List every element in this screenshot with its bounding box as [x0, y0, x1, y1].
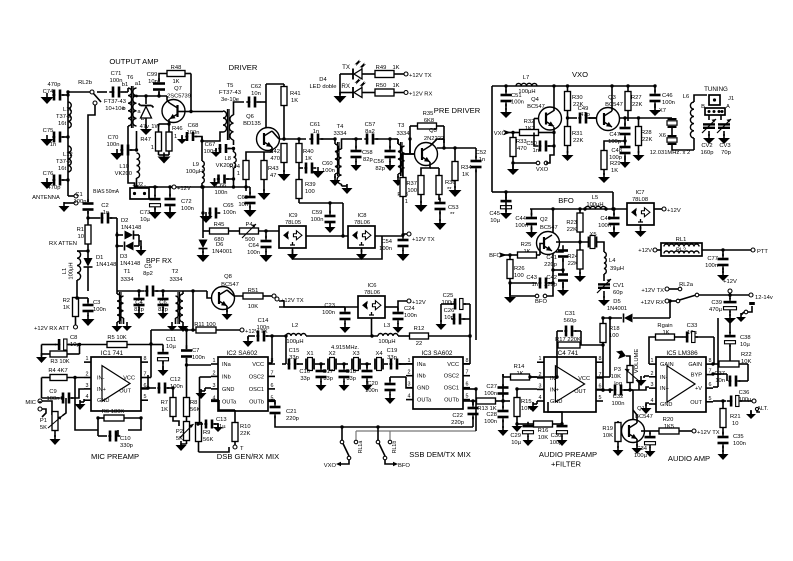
svg-text:MIC PREAMP: MIC PREAMP: [91, 452, 139, 461]
diode D2 label: [121, 218, 141, 231]
svg-text:C45: C45: [489, 211, 500, 217]
variable capacitor CV1 label: [613, 283, 624, 296]
capacitor C38 label: [740, 335, 751, 348]
wire T6 a tap to L10: [135, 131, 138, 152]
wire Q4 base: [534, 119, 539, 133]
ANTENNA label: [32, 195, 60, 201]
resistor R40: [296, 137, 302, 168]
svg-text:RL1b: RL1b: [392, 441, 398, 454]
wire IC1 pin7 rail: [148, 328, 195, 377]
svg-text:C25: C25: [443, 293, 454, 299]
connector J1 pins: [705, 108, 725, 115]
relay contact RL1a bottom: [340, 456, 351, 464]
svg-text:100n: 100n: [247, 250, 260, 256]
crystal X5: [556, 236, 597, 249]
transformer T5 label: [219, 83, 241, 103]
svg-text:-: -: [144, 183, 146, 189]
capacitor C45 label: [489, 211, 500, 224]
svg-text:5K: 5K: [40, 425, 47, 431]
capacitor C58: [351, 137, 362, 171]
wire IC4 out node: [596, 388, 612, 391]
power plug symbol: [736, 302, 755, 322]
capacitor C12 label: [170, 377, 183, 390]
svg-text:C75: C75: [43, 128, 54, 134]
resistor R15 label: [521, 399, 532, 412]
ground for IC8: [356, 248, 367, 260]
label BFO bottom: [535, 299, 547, 305]
wire IC1 out to C12: [141, 386, 150, 389]
regulator IC6 78L06: [358, 296, 385, 318]
relay contact RL2b label: [78, 80, 92, 86]
crystal X3 label: [352, 351, 359, 357]
resistor R38 label: [397, 192, 408, 205]
crystal X7: [667, 119, 677, 127]
svg-text:IC2 SA602: IC2 SA602: [227, 350, 258, 357]
capacitor C74 label: [43, 82, 61, 95]
potentiometer P4: [240, 224, 280, 238]
svg-text:+12V: +12V: [723, 279, 737, 285]
label BPF RX: [146, 256, 172, 265]
svg-text:C43: C43: [526, 275, 537, 281]
svg-text:OUTb: OUTb: [249, 399, 264, 405]
svg-text:2: 2: [651, 371, 654, 377]
resistor R1: [85, 225, 91, 258]
capacitor C64 label: [247, 243, 260, 256]
wire IC9 in from P4: [278, 230, 280, 232]
svg-text:GND: GND: [417, 386, 429, 392]
svg-text:PTT: PTT: [757, 249, 768, 255]
crystal X7 label: [659, 108, 666, 114]
svg-text:C62: C62: [251, 84, 262, 90]
label +12V TX switch: [641, 288, 664, 294]
svg-text:R46: R46: [172, 126, 183, 132]
svg-text:GND: GND: [550, 399, 562, 405]
svg-text:+12V RX: +12V RX: [641, 300, 664, 306]
resistor R49: [362, 71, 404, 78]
svg-text:VCC: VCC: [123, 376, 135, 382]
wire Q5 emitter to R37: [421, 162, 430, 176]
svg-text:8: 8: [709, 358, 712, 364]
svg-text:100: 100: [305, 189, 315, 195]
svg-text:1K: 1K: [161, 407, 168, 413]
svg-text:82p: 82p: [363, 157, 373, 163]
wire IC1 pin7 up: [147, 375, 149, 388]
resistor R21: [720, 401, 726, 434]
wire R6 feedback: [75, 378, 143, 431]
wire IC3 OUTb to R13: [463, 399, 477, 402]
wire L1 to R2: [76, 280, 78, 298]
inductor L12 label: [56, 152, 73, 172]
connector J2 BIAS label: [93, 189, 120, 195]
capacitor C63 label: [237, 195, 248, 208]
svg-text:C13: C13: [216, 417, 227, 423]
svg-text:BFO: BFO: [535, 299, 547, 305]
transformer T3: [398, 139, 405, 176]
resistor R43 label: [268, 166, 279, 179]
svg-text:A: A: [726, 104, 730, 110]
svg-text:T: T: [240, 446, 244, 452]
svg-text:100n: 100n: [662, 100, 675, 106]
terminal +12V RX led: [404, 91, 432, 98]
svg-text:R28: R28: [641, 130, 652, 136]
terminal PTT: [751, 248, 768, 255]
svg-text:BFO: BFO: [489, 253, 501, 259]
wire BFO contact right: [547, 290, 553, 296]
resistor Rgain label: [657, 323, 672, 336]
capacitor C57: [352, 134, 394, 145]
diode D6: [199, 231, 208, 253]
label BFO left: [489, 253, 501, 259]
variable capacitor CV2 label: [701, 143, 714, 156]
relay RL1 RL2 box: [661, 243, 702, 256]
terminal +12V TX led: [404, 72, 432, 79]
svg-text:C71: C71: [111, 71, 122, 77]
capacitor C73: [149, 185, 162, 219]
svg-text:100n: 100n: [484, 391, 497, 397]
svg-text:C9: C9: [49, 389, 56, 395]
transistor Q8 label: [221, 274, 239, 288]
regulator IC9 78L05 label: [285, 213, 301, 226]
svg-text:70p: 70p: [721, 150, 731, 156]
svg-text:C77: C77: [707, 256, 718, 262]
wire T3 top to C57: [394, 137, 412, 154]
resistor R42: [281, 144, 287, 173]
capacitor C46 label: [662, 93, 675, 106]
svg-text:100n: 100n: [107, 142, 120, 148]
capacitor C15: [282, 334, 303, 369]
svg-text:10K: 10K: [611, 374, 621, 380]
terminal +12V relay: [638, 248, 661, 254]
capacitor C44: [526, 209, 538, 238]
resistor R25: [510, 252, 540, 258]
wire +12VTX left lead: [279, 301, 337, 307]
section title OUTPUT AMP: [109, 57, 158, 66]
wire R15 to IC4 IN+: [517, 388, 537, 390]
wire C25 C26 node: [468, 319, 471, 338]
svg-text:L5: L5: [592, 195, 598, 201]
capacitor C76: [52, 175, 68, 186]
wire RL2a common: [699, 294, 731, 296]
svg-text:D4: D4: [319, 77, 327, 83]
diode D3: [117, 242, 139, 251]
resistor R42 label: [269, 149, 280, 162]
capacitor C71 label: [110, 71, 123, 84]
svg-text:100n: 100n: [404, 313, 417, 319]
wire Q2 emitter down: [551, 253, 554, 290]
transformer T2: [167, 291, 189, 332]
svg-text:22K: 22K: [567, 227, 577, 233]
wire Q2 collector: [552, 209, 554, 233]
svg-text:T3: T3: [398, 123, 405, 129]
inductor L10: [137, 153, 140, 178]
svg-text:OSC1: OSC1: [249, 387, 264, 393]
svg-text:10+10e: 10+10e: [105, 106, 125, 112]
capacitor C33: [683, 332, 714, 365]
capacitor C9 label: [47, 389, 60, 402]
ground for P2: [176, 441, 187, 451]
svg-text:5: 5: [709, 396, 712, 402]
svg-text:R43: R43: [268, 166, 279, 172]
svg-text:C1: C1: [75, 192, 82, 198]
resistor R33: [510, 133, 516, 164]
svg-text:C26: C26: [444, 308, 455, 314]
regulator IC9 78L05: [279, 226, 306, 248]
ground for R34: [449, 186, 462, 197]
capacitor C57 label: [365, 122, 376, 135]
svg-text:C42: C42: [546, 275, 557, 281]
node C1 C2 junction: [86, 216, 89, 219]
wire C2 to T1 column: [116, 218, 118, 291]
resistor R34 label: [461, 165, 472, 178]
microphone jack: [38, 399, 52, 417]
svg-text:470µ: 470µ: [709, 307, 723, 313]
connector J2 label: [137, 182, 143, 188]
svg-text:7: 7: [709, 369, 712, 375]
wire Q7 collector up: [167, 96, 170, 103]
section title TUNING: [704, 86, 728, 93]
resistor R15: [514, 387, 520, 424]
capacitor C19 label: [387, 348, 398, 361]
inductor L10 label: [115, 164, 132, 177]
resistor R8: [184, 365, 190, 423]
capacitor C68 label: [187, 123, 200, 136]
svg-text:10n: 10n: [444, 315, 454, 321]
svg-text:C23: C23: [324, 303, 335, 309]
resistor R32 label: [524, 119, 535, 132]
svg-text:Q2: Q2: [540, 217, 548, 223]
capacitor C26 label: [444, 308, 455, 321]
wire Q8 collector to R51: [227, 290, 243, 296]
resistor R31: [565, 118, 571, 153]
transistor Q1 label: [635, 406, 653, 420]
svg-text:Q8: Q8: [224, 274, 232, 280]
svg-text:Q6: Q6: [246, 114, 254, 120]
potentiometer P2: [180, 422, 194, 445]
svg-text:3334: 3334: [121, 277, 135, 283]
svg-text:SSB DEM/TX MIX: SSB DEM/TX MIX: [409, 450, 471, 459]
capacitor C40: [608, 207, 620, 238]
ground for IC5 GND: [641, 403, 652, 414]
svg-text:L2: L2: [292, 323, 298, 329]
capacitor C30 label: [549, 433, 563, 446]
inductor L11 label: [56, 107, 72, 127]
svg-text:P1: P1: [40, 418, 47, 424]
svg-text:T6: T6: [127, 75, 134, 81]
wire IC6 out to L2 node: [371, 318, 373, 336]
resistor R49 label: [376, 65, 400, 71]
resistor R14 label: [514, 364, 525, 377]
svg-text:C46: C46: [662, 93, 673, 99]
svg-text:C99: C99: [147, 72, 158, 78]
section title MIC PREAMP: [91, 452, 139, 461]
transformer T4 label: [334, 124, 348, 137]
svg-text:IC5 LM386: IC5 LM386: [666, 350, 698, 357]
inductor L7: [516, 83, 537, 86]
svg-text:BIAS 50mA: BIAS 50mA: [93, 189, 120, 195]
capacitor C76 label: [43, 171, 61, 191]
svg-text:R10: R10: [240, 424, 251, 430]
resistor R1 label: [77, 227, 84, 240]
svg-text:100: 100: [407, 188, 417, 194]
svg-text:10: 10: [78, 234, 84, 240]
label RX ATTEN: [49, 241, 77, 247]
capacitor C6 label: [158, 300, 168, 313]
wire R35 to base: [405, 126, 445, 154]
svg-text:AUDIO PREAMP: AUDIO PREAMP: [539, 450, 597, 459]
svg-text:6: 6: [599, 383, 602, 389]
wire INa from C7: [185, 363, 211, 366]
svg-text:C2: C2: [101, 203, 108, 209]
svg-text:16t: 16t: [58, 121, 66, 127]
svg-text:R45: R45: [214, 222, 225, 228]
amplifier IC5 LM386: [649, 357, 713, 412]
section title DSB GEN/RX MIX: [217, 452, 279, 461]
capacitor C3: [75, 296, 94, 326]
resistor R45 label: [214, 222, 225, 243]
svg-text:3334: 3334: [170, 277, 184, 283]
wire R44 to +12V rail: [244, 185, 247, 188]
svg-text:10µ: 10µ: [740, 342, 750, 348]
svg-text:BD135: BD135: [243, 121, 261, 127]
resistor R33 label: [516, 139, 527, 152]
wire R17 to IC4 pins: [537, 343, 605, 378]
resistor R39 label: [305, 182, 316, 195]
svg-text:C11: C11: [166, 337, 176, 343]
transformer T5: [223, 109, 234, 140]
resistor R19 label: [602, 426, 613, 439]
svg-text:INb: INb: [417, 374, 426, 380]
resistor R51: [243, 293, 272, 299]
ground for R31: [562, 151, 574, 161]
svg-text:4: 4: [86, 394, 89, 400]
svg-text:R35: R35: [423, 111, 434, 117]
svg-text:C7: C7: [192, 348, 199, 354]
wire T2 to Q8 base: [183, 289, 212, 298]
svg-text:IN+: IN+: [550, 387, 559, 393]
svg-text:7: 7: [466, 370, 469, 376]
capacitor C22 label: [451, 413, 464, 426]
svg-text:4: 4: [651, 398, 654, 404]
resistor R29: [601, 141, 625, 175]
resistor R11 label: [194, 322, 216, 328]
ground for D6: [197, 251, 210, 262]
capacitor C10: [98, 430, 120, 442]
svg-text:100n: 100n: [215, 190, 228, 196]
resistor R37 label: [406, 181, 417, 194]
svg-text:GND: GND: [660, 402, 672, 408]
svg-text:X7: X7: [659, 108, 666, 114]
wire IC9 IC8 bottom link: [293, 236, 383, 259]
wire IC5 pin7 byp: [711, 372, 714, 375]
transistor Q2: [537, 232, 560, 255]
ground for P1: [50, 435, 61, 445]
capacitor C27: [498, 374, 509, 401]
terminal T: [233, 445, 244, 452]
svg-text:C59: C59: [312, 210, 323, 216]
resistor R26: [507, 255, 513, 295]
svg-text:VK200: VK200: [115, 171, 132, 177]
svg-text:100n: 100n: [484, 419, 497, 425]
svg-text:RL1: RL1: [676, 237, 687, 243]
resistor R36 label: [445, 180, 456, 193]
svg-text:P3: P3: [614, 367, 621, 373]
capacitor C36: [713, 396, 752, 407]
svg-text:100: 100: [514, 273, 524, 279]
wire relay to PTT: [702, 248, 751, 251]
ground for R33: [507, 163, 519, 175]
svg-text:C73: C73: [140, 210, 151, 216]
svg-text:4: 4: [408, 394, 411, 400]
crystal X4: [375, 358, 388, 371]
svg-text:R40: R40: [303, 149, 314, 155]
mixer IC2 SA602 label: [227, 350, 258, 357]
svg-text:100µ: 100µ: [634, 453, 648, 459]
inductor L5 label: [586, 195, 603, 208]
wire R38 to +12V TX node: [401, 233, 404, 236]
BFO output contacts: [510, 283, 547, 298]
svg-text:22K: 22K: [573, 138, 583, 144]
svg-text:470: 470: [517, 146, 527, 152]
capacitor C2: [100, 213, 112, 224]
resistor R10: [232, 410, 238, 445]
svg-text:**: **: [450, 212, 455, 218]
capacitor C11 label: [166, 337, 176, 350]
svg-text:1: 1: [408, 358, 411, 364]
capacitor C47 label: [608, 132, 621, 145]
wire Q1 collector: [633, 410, 637, 423]
resistor R12: [410, 333, 472, 339]
svg-text:RX ATTEN: RX ATTEN: [49, 241, 77, 247]
wire C5 to T2: [156, 290, 183, 292]
node antenna junctions: [66, 93, 69, 181]
wire R16 C30 to IC4 GND: [548, 402, 562, 424]
capacitor C50 label: [526, 141, 539, 154]
svg-text:C20: C20: [367, 381, 378, 387]
wire IC4 VCC pin7: [596, 316, 612, 377]
svg-text:IC8: IC8: [357, 213, 366, 219]
capacitor C66 label: [215, 183, 228, 196]
svg-text:R27: R27: [631, 95, 642, 101]
resistor R51 name label: [248, 288, 259, 294]
mixer IC2 SA602: [211, 357, 275, 411]
wire 12-14v: [731, 294, 749, 296]
capacitor C28 label: [484, 412, 497, 425]
svg-text:C39: C39: [711, 300, 722, 306]
svg-text:DRIVER: DRIVER: [229, 63, 258, 72]
resistor R45: [203, 228, 239, 234]
capacitor C1: [83, 199, 94, 214]
capacitor C24: [385, 307, 404, 333]
svg-text:R50: R50: [376, 83, 387, 89]
inductor L4 label: [609, 258, 624, 272]
svg-text:10µ: 10µ: [140, 217, 150, 223]
capacitor C30: [557, 422, 568, 446]
svg-text:C72: C72: [181, 199, 192, 205]
wire R12 node down IC3 VCC: [463, 336, 470, 364]
wire Q6 emitter down: [246, 147, 272, 160]
resistor R25 label: [521, 242, 532, 255]
op-amp IC4 741 label: [556, 350, 579, 357]
capacitor C75 label: [43, 128, 57, 148]
svg-text:R3 10K: R3 10K: [50, 359, 69, 365]
relay RL1 RL2 label: [676, 237, 687, 243]
wire BFO supply rail: [530, 207, 627, 210]
svg-text:C36: C36: [739, 390, 750, 396]
label crystal frequency: [650, 150, 691, 156]
resistor R44: [243, 161, 249, 192]
svg-text:R9: R9: [203, 430, 210, 436]
svg-text:5K: 5K: [176, 436, 183, 442]
